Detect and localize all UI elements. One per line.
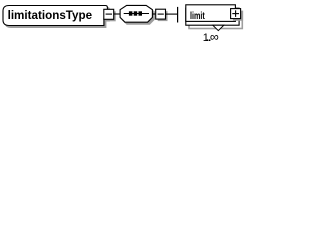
expand box shadow: [233, 11, 243, 21]
collapse box 2 (minus): [156, 9, 166, 19]
complexType limitationsType box shadow: [5, 8, 109, 28]
minus sign box 1: [106, 13, 112, 15]
occurrence bar: [177, 7, 179, 23]
occurrence label dots: [207, 39, 209, 41]
element limit back box (multi-occurrence): [186, 8, 239, 25]
wire box2 to occurrence bar: [166, 13, 178, 15]
svg-text:limit: limit: [190, 10, 205, 22]
element limit front box: [186, 5, 236, 22]
plus sign vertical: [235, 10, 237, 17]
wire sequence to box2: [152, 13, 155, 15]
complexType limitationsType box: [3, 6, 107, 26]
expand box (plus): [231, 9, 241, 19]
wire box1 to sequence: [114, 13, 121, 15]
sequence dot 1: [129, 11, 133, 15]
sequence compositor shadow: [122, 7, 154, 24]
sequence inner line: [124, 13, 149, 15]
element limit back-box shadow outline: [189, 12, 242, 29]
svg-text:limitationsType: limitationsType: [8, 10, 93, 22]
sequence dot 3: [139, 11, 143, 15]
sequence dot 2: [134, 11, 138, 15]
sequence compositor octagon: [120, 5, 152, 22]
background: [0, 0, 246, 52]
svg-text:1∞: 1∞: [203, 30, 219, 44]
collapse box 1 shadow: [106, 11, 116, 21]
collapse box 2 shadow: [158, 11, 168, 21]
plus sign horizontal: [232, 13, 239, 15]
minus sign box 2: [158, 13, 164, 15]
collapse box 1 (minus): [104, 9, 114, 19]
substitution triangle marker: [213, 25, 224, 30]
